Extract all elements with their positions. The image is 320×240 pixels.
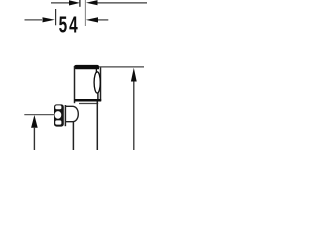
dome/nut washer edge xyxy=(64,105,66,126)
wall supply line xyxy=(24,114,54,116)
union hex nut (side view) xyxy=(54,104,64,126)
flow/height arrow up (tip at supply line) xyxy=(31,115,38,128)
dimension arrow left-pointing (top) xyxy=(86,0,98,5)
height dimension line (right, vertical) xyxy=(133,80,135,150)
extension line (54 dim, left) xyxy=(55,9,57,25)
inlet dome (D-shape) xyxy=(65,106,78,121)
extension line (top dim, left tick) xyxy=(79,0,81,7)
height dimension arrow up xyxy=(131,68,137,82)
valve body lower left edge xyxy=(72,122,74,151)
dimension arrow right-pointing (top) xyxy=(69,0,80,5)
dimension arrow right-pointing (54) xyxy=(43,17,55,22)
dimension line 54 right segment xyxy=(98,19,108,21)
valve body top cap (thick bar) xyxy=(74,65,99,69)
dimension line (top, value cut off) left segment xyxy=(51,2,70,4)
extension line (shared right, runs down to 54-dim) xyxy=(84,0,86,26)
handle stem top stub xyxy=(95,69,97,74)
dimension arrow left-pointing (54) xyxy=(86,17,98,22)
step line under flange xyxy=(79,103,98,105)
nut facet top highlight xyxy=(55,105,61,109)
valve body upper right edge xyxy=(100,68,102,102)
extension line from valve top to height dimension xyxy=(99,66,144,68)
body joint flange (thick bar) xyxy=(74,99,101,102)
svg-text:54: 54 xyxy=(59,12,80,38)
flow/height arrow shaft xyxy=(33,127,35,150)
nut facet middle highlight xyxy=(55,111,62,119)
handle oval (side view) xyxy=(94,72,100,93)
dimension line (top) right segment xyxy=(98,2,148,4)
handle stem bottom stub xyxy=(97,93,99,101)
dimension line 54 left segment xyxy=(25,19,43,21)
valve body lower right edge xyxy=(96,102,98,151)
valve body upper left edge xyxy=(74,66,76,103)
nut facet bottom highlight xyxy=(55,120,61,124)
